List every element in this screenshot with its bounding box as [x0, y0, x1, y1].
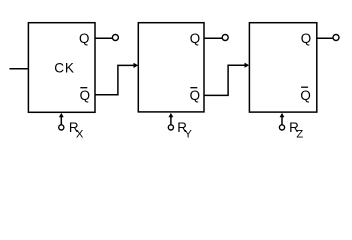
- flip-flop Y: [138, 23, 204, 112]
- pin label Q-bar (flip-flop X): [80, 88, 90, 104]
- label RZ: [289, 120, 303, 141]
- output terminal circle (Q of flip-flop X): [112, 35, 118, 41]
- wire: Q output of flip-flop Z: [317, 37, 333, 39]
- flip-flop X: [28, 23, 95, 113]
- wire: Q-bar of flip-flop X to clock of flip-flop Y: [95, 65, 134, 94]
- output terminal circle (Q of flip-flop Y): [222, 35, 228, 41]
- wire: reset input RX stem: [60, 117, 62, 125]
- input terminal circle RY: [168, 125, 173, 130]
- svg-text:Z: Z: [296, 129, 303, 141]
- svg-text:X: X: [76, 129, 84, 141]
- label RX: [69, 120, 84, 141]
- output terminal circle (Q of flip-flop Z): [333, 35, 339, 41]
- svg-text:Y: Y: [184, 129, 192, 141]
- arrowhead into bottom of flip-flop Z: [280, 113, 285, 117]
- svg-text:Q: Q: [190, 88, 200, 103]
- label RY: [177, 120, 192, 141]
- arrowhead into bottom of flip-flop X: [59, 113, 64, 117]
- wire: reset input RZ stem: [281, 117, 283, 125]
- arrowhead into clock of flip-flop Z: [245, 63, 250, 68]
- svg-text:Q: Q: [79, 31, 89, 46]
- input terminal circle RZ: [279, 125, 284, 130]
- arrowhead into clock of flip-flop Y: [134, 63, 139, 68]
- svg-text:Q: Q: [300, 88, 310, 103]
- wire: reset input RY stem: [170, 117, 172, 125]
- wire: Q output of flip-flop X: [95, 37, 112, 39]
- svg-text:Q: Q: [301, 31, 311, 46]
- wire: Q output of flip-flop Y: [204, 37, 222, 39]
- wire: clock input into flip-flop X: [9, 68, 28, 70]
- pin label Q-bar (flip-flop Y): [190, 88, 200, 104]
- svg-text:CK: CK: [54, 60, 74, 75]
- pin label Q-bar (flip-flop Z): [300, 87, 310, 103]
- svg-text:Q: Q: [80, 88, 90, 103]
- wire: Q-bar of flip-flop Y to clock of flip-flop Z: [204, 65, 245, 95]
- arrowhead into bottom of flip-flop Y: [169, 113, 174, 117]
- input terminal circle RX: [59, 125, 64, 130]
- flip-flop Z: [249, 23, 316, 112]
- svg-text:Q: Q: [190, 31, 200, 46]
